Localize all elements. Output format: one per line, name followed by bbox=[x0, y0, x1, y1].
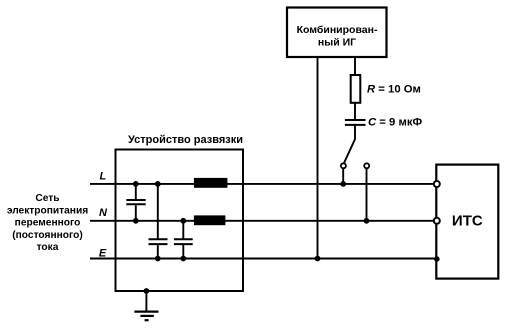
junction dot C1 on L bbox=[133, 181, 139, 187]
junction dot switch on L bbox=[340, 181, 346, 187]
generator box U1 Комбинированный ИГ bbox=[287, 8, 387, 58]
capacitor C3 between N and E bbox=[174, 221, 193, 259]
junction dot C2 on L bbox=[155, 181, 161, 187]
wire L line bbox=[90, 183, 436, 185]
switch contact left circle bbox=[341, 163, 346, 168]
svg-text:E: E bbox=[99, 247, 107, 259]
ground bbox=[134, 288, 158, 320]
junction dot C2 on E bbox=[155, 256, 161, 262]
junction dot C3 on N bbox=[180, 218, 186, 224]
decoupling box Устройство развязки bbox=[116, 134, 244, 291]
wire generator left output to E bbox=[317, 57, 319, 259]
svg-text:ИТС: ИТС bbox=[452, 213, 483, 230]
wire E line bbox=[90, 258, 436, 260]
svg-text:электропитания: электропитания bbox=[7, 205, 88, 216]
wire switch right contact to N bbox=[366, 168, 368, 221]
inductor L1 on line L bbox=[194, 178, 228, 188]
EUT box ИТС bbox=[436, 165, 498, 279]
svg-text:N: N bbox=[99, 207, 108, 219]
switch lever bbox=[344, 139, 355, 162]
terminal circle ИТС on N bbox=[434, 218, 440, 224]
junction dot generator output on E bbox=[315, 256, 321, 262]
capacitor C2 between L and E bbox=[149, 184, 168, 259]
capacitor C = 9 мкФ bbox=[345, 117, 423, 129]
label mains supply text bbox=[7, 193, 88, 253]
resistor R = 10 Ом bbox=[351, 75, 421, 103]
svg-text:C = 9 мкФ: C = 9 мкФ bbox=[368, 117, 422, 129]
wire switch left contact to L bbox=[342, 168, 344, 184]
junction dot switch on N bbox=[364, 218, 370, 224]
wire capacitor to switch lever bbox=[354, 125, 356, 140]
svg-text:L: L bbox=[100, 171, 107, 183]
svg-text:тока: тока bbox=[37, 242, 59, 253]
svg-text:(постоянного): (постоянного) bbox=[12, 230, 82, 241]
wire generator right output to resistor bbox=[354, 57, 356, 76]
switch contact right circle bbox=[364, 163, 369, 168]
svg-text:Комбинирован-: Комбинирован- bbox=[297, 24, 378, 36]
svg-text:Сеть: Сеть bbox=[35, 193, 59, 204]
junction dot C1 on N bbox=[133, 218, 139, 224]
inductor L2 on line N bbox=[194, 215, 226, 225]
capacitor C1 between L and N bbox=[126, 184, 145, 221]
wire resistor to capacitor bbox=[354, 103, 356, 120]
svg-text:Устройство развязки: Устройство развязки bbox=[128, 134, 243, 146]
svg-text:ный ИГ: ный ИГ bbox=[318, 37, 356, 49]
svg-text:переменного: переменного bbox=[15, 218, 81, 229]
wire N line bbox=[90, 220, 436, 222]
junction dot C3 on E bbox=[180, 256, 186, 262]
terminal circle ИТС on L bbox=[434, 181, 440, 187]
terminal dot ИТС on E bbox=[434, 256, 440, 262]
svg-text:R = 10 Ом: R = 10 Ом bbox=[367, 84, 421, 96]
